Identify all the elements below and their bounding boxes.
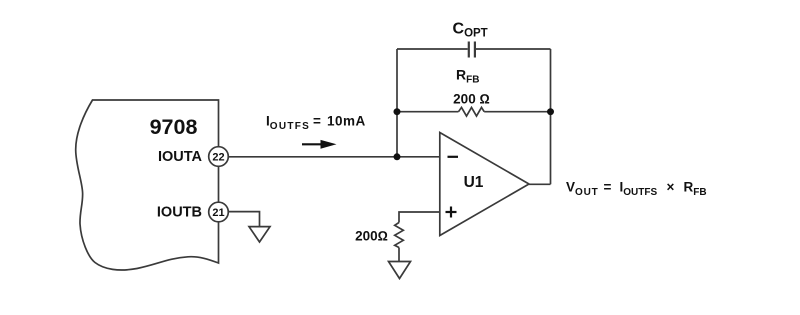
- current arrow: [302, 143, 322, 145]
- wire top segment right of capacitor: [476, 48, 551, 50]
- op-amp plus sign: [446, 211, 457, 213]
- chip 9708 outline: [76, 100, 219, 270]
- op-amp U1 triangle: [440, 133, 529, 236]
- resistor R_FB zigzag: [459, 107, 485, 116]
- svg-text:22: 22: [212, 151, 224, 163]
- svg-text:9708: 9708: [150, 115, 198, 139]
- junction node A dot: [394, 153, 401, 160]
- svg-text:COPT: COPT: [453, 21, 488, 40]
- svg-text:VOUT=IOUTFS×RFB: VOUT=IOUTFS×RFB: [566, 180, 707, 199]
- capacitor C_OPT plates: [468, 42, 470, 58]
- svg-text:IOUTB: IOUTB: [157, 204, 202, 220]
- wire output right vertical: [550, 49, 552, 184]
- wire R_FB row right segment: [484, 111, 550, 113]
- junction dot feedback left: [394, 108, 401, 115]
- junction dot feedback right: [547, 108, 554, 115]
- wire op-amp output: [529, 183, 551, 185]
- op-amp minus sign: [448, 156, 459, 158]
- wire R_FB row left segment: [397, 111, 459, 113]
- wire resistor to ground: [398, 248, 400, 262]
- ground symbol at IOUTB: [249, 227, 270, 242]
- svg-text:IOUTFS=10mA: IOUTFS=10mA: [266, 114, 366, 133]
- wire IOUTB to ground: [228, 212, 259, 227]
- pin circle 22: [209, 147, 229, 167]
- pin circle 21: [209, 202, 229, 222]
- wire IOUTA to op-amp inverting input: [228, 156, 439, 158]
- resistor 200ohm vertical zigzag: [395, 223, 404, 248]
- svg-text:RFB: RFB: [456, 67, 479, 86]
- svg-text:21: 21: [212, 207, 224, 219]
- svg-text:IOUTA: IOUTA: [158, 149, 203, 165]
- svg-text:200Ω: 200Ω: [355, 229, 388, 244]
- ground symbol below 200ohm: [389, 262, 411, 279]
- wire feedback left vertical: [396, 49, 398, 157]
- wire top segment left of capacitor: [397, 48, 468, 50]
- wire non-inverting input: [399, 212, 440, 223]
- svg-text:200 Ω: 200 Ω: [453, 92, 490, 107]
- svg-text:U1: U1: [464, 174, 484, 191]
